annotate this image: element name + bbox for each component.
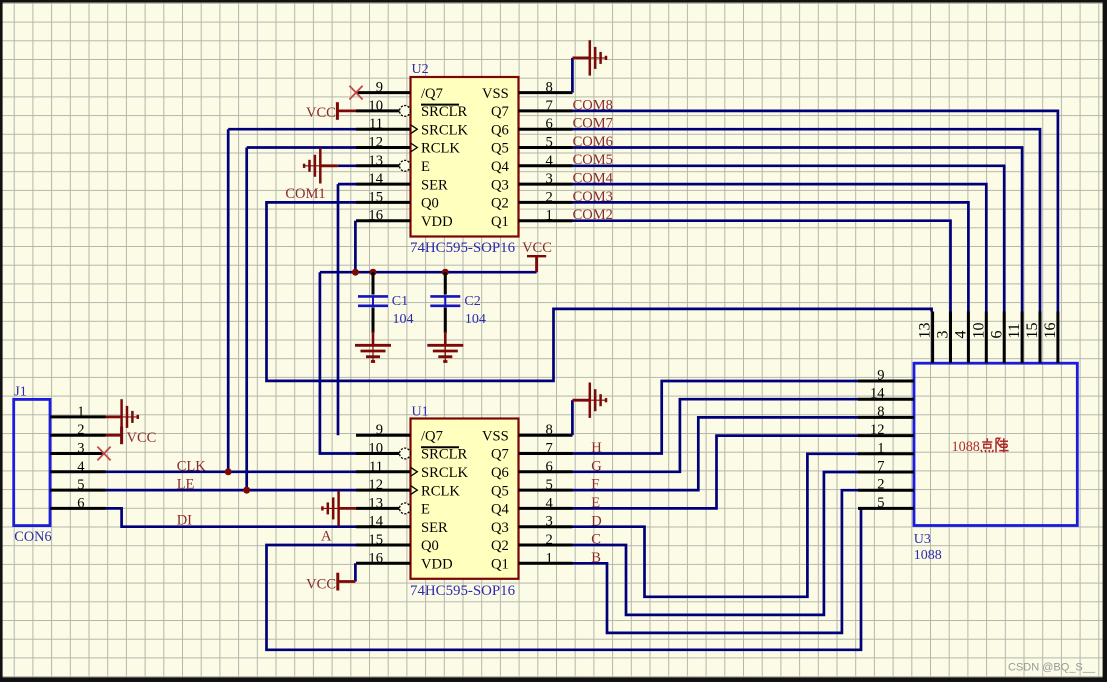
svg-text:SRCLK: SRCLK xyxy=(421,465,468,481)
value label 74HC595-SOP16 of U2 xyxy=(410,240,515,256)
svg-text:LE: LE xyxy=(177,477,195,493)
svg-text:8: 8 xyxy=(546,422,553,438)
net label COM7 xyxy=(573,116,613,132)
label 1088dotmatrix xyxy=(952,438,1009,455)
svg-text:3: 3 xyxy=(546,171,553,187)
pin 8 of U3 (left) xyxy=(858,404,914,420)
svg-text:COM4: COM4 xyxy=(573,171,614,187)
IC U1 74HC595-SOP16 body xyxy=(411,419,519,579)
wire net COM4 from U2 Q3 to matrix xyxy=(573,184,987,311)
pin 2 of U3 (left) xyxy=(858,477,914,493)
pin 16 VDD of U2 xyxy=(356,208,453,230)
wire net COM3 from U2 Q2 to matrix xyxy=(573,202,969,311)
svg-text:Q5: Q5 xyxy=(491,141,509,157)
svg-text:104: 104 xyxy=(465,312,486,327)
value label 1088 xyxy=(914,548,942,563)
wire vertical LE riser xyxy=(245,148,248,491)
net label COM6 xyxy=(573,134,613,150)
pin 10 SRCLR of U2 xyxy=(356,98,467,120)
svg-text:Q2: Q2 xyxy=(491,196,509,212)
svg-text:4: 4 xyxy=(546,495,554,511)
svg-text:Q4: Q4 xyxy=(491,502,510,518)
net label COM8 xyxy=(573,97,613,113)
pin 12 of U3 (left) xyxy=(858,422,914,438)
no-ERC cross on J1 pin 3 xyxy=(97,447,110,461)
svg-text:1: 1 xyxy=(546,208,553,224)
designator C1 xyxy=(392,294,408,309)
wire net COM7 from U2 Q6 to matrix xyxy=(573,129,1041,311)
svg-text:VSS: VSS xyxy=(482,86,509,102)
junction LE xyxy=(243,487,250,494)
svg-text:5: 5 xyxy=(546,477,553,493)
svg-text:10: 10 xyxy=(368,441,383,457)
svg-text:14: 14 xyxy=(870,386,885,402)
svg-text:Q5: Q5 xyxy=(491,483,509,499)
pin 1 of J1 xyxy=(50,404,106,420)
net label C xyxy=(591,532,601,548)
svg-text:11: 11 xyxy=(369,116,383,132)
svg-text:RCLK: RCLK xyxy=(421,483,460,499)
connector J1 CON6 body xyxy=(14,399,50,525)
svg-text:C2: C2 xyxy=(464,294,480,309)
pin 7 of U3 (left) xyxy=(858,459,914,475)
svg-text:VDD: VDD xyxy=(421,557,453,573)
svg-text:2: 2 xyxy=(546,532,553,548)
svg-text:13: 13 xyxy=(368,495,383,511)
svg-text:Q7: Q7 xyxy=(491,447,509,463)
designator U2 xyxy=(412,62,429,77)
pin 4 Q4 of U2 xyxy=(491,153,573,175)
svg-text:7: 7 xyxy=(877,459,884,475)
wire net COM6 from U2 Q5 to matrix xyxy=(573,148,1023,312)
wire net D from U1 Q3 to matrix pin 1 xyxy=(573,454,859,597)
svg-text:6: 6 xyxy=(546,459,553,475)
svg-text:COM7: COM7 xyxy=(573,116,613,132)
svg-text:Q1: Q1 xyxy=(491,557,509,573)
wire net COM8 from U2 Q7 to matrix xyxy=(573,111,1058,312)
no-ERC cross on U2 pin 9 xyxy=(349,86,362,100)
pin 2 Q2 of U2 xyxy=(491,189,573,211)
svg-text:5: 5 xyxy=(77,477,84,493)
pin 1 of U3 (left) xyxy=(858,440,914,456)
svg-text:CSDN @BQ_S__: CSDN @BQ_S__ xyxy=(1008,662,1096,674)
capacitor C1 xyxy=(358,272,388,333)
pin 5 Q5 of U1 xyxy=(491,477,573,499)
pin 13 E of U1 xyxy=(356,495,430,517)
svg-text:Q3: Q3 xyxy=(491,177,509,193)
svg-text:8: 8 xyxy=(546,80,553,96)
svg-text:11: 11 xyxy=(369,459,383,475)
svg-text:/Q7: /Q7 xyxy=(421,86,443,102)
value 104 of C1 xyxy=(393,312,414,327)
svg-text:Q7: Q7 xyxy=(491,104,509,120)
svg-text:U3: U3 xyxy=(914,532,931,547)
net label B xyxy=(591,550,601,566)
capacitor C2 xyxy=(430,272,460,333)
pin 11 of U3 (top) xyxy=(1006,312,1023,364)
ground symbol below C2 xyxy=(427,332,463,362)
svg-text:U2: U2 xyxy=(412,62,429,77)
svg-text:3: 3 xyxy=(77,441,84,457)
pin 14 SER of U1 xyxy=(356,514,448,536)
svg-text:74HC595-SOP16: 74HC595-SOP16 xyxy=(410,583,515,599)
pin 13 of U3 (top) xyxy=(917,312,934,364)
svg-text:U1: U1 xyxy=(412,404,429,419)
ground symbol below C1 xyxy=(355,332,391,362)
net label D xyxy=(591,513,601,529)
pin 5 Q5 of U2 xyxy=(491,135,573,157)
pin 3 of U3 (top) xyxy=(935,312,952,364)
wire net LE from J1 pin 5 to U1 RCLK xyxy=(106,489,357,492)
svg-text:COM2: COM2 xyxy=(573,207,613,223)
pin 10 of U3 (top) xyxy=(970,312,987,364)
pin 4 Q4 of U1 xyxy=(491,495,573,517)
svg-text:15: 15 xyxy=(368,532,383,548)
wire VCC rail down to U1 SRCLR xyxy=(320,272,356,453)
svg-text:VSS: VSS xyxy=(482,428,509,444)
net label H xyxy=(591,440,602,456)
pin 9 /Q7 of U2 xyxy=(356,80,443,102)
svg-text:5: 5 xyxy=(546,135,553,151)
svg-text:2: 2 xyxy=(77,422,84,438)
pin 1 Q1 of U2 xyxy=(491,208,573,230)
svg-text:VCC: VCC xyxy=(306,577,336,593)
pin 16 of U3 (top) xyxy=(1042,312,1059,364)
svg-text:104: 104 xyxy=(393,312,414,327)
svg-text:1: 1 xyxy=(546,550,553,566)
svg-text:14: 14 xyxy=(368,514,383,530)
power port VCC at J1 pin 2 xyxy=(106,426,157,446)
pin 2 Q2 of U1 xyxy=(491,532,573,554)
pin 12 RCLK of U2 xyxy=(356,135,460,157)
wire net COM1 from U2 Q0 xyxy=(267,202,932,381)
designator U1 xyxy=(412,404,429,419)
ground symbol at J1 pin 1 xyxy=(106,399,139,434)
svg-text:COM5: COM5 xyxy=(573,152,613,168)
svg-text:COM1: COM1 xyxy=(285,186,325,202)
designator J1 xyxy=(14,385,26,400)
svg-text:/Q7: /Q7 xyxy=(421,428,443,444)
svg-text:12: 12 xyxy=(368,135,383,151)
svg-text:VDD: VDD xyxy=(421,214,453,230)
svg-text:6: 6 xyxy=(988,331,1005,339)
svg-text:VCC: VCC xyxy=(306,105,336,121)
svg-text:10: 10 xyxy=(970,323,987,339)
wire U2 RCLK to LE vertical xyxy=(247,146,356,149)
pin 13 E of U2 xyxy=(356,153,430,175)
svg-text:Q2: Q2 xyxy=(491,538,509,554)
wire vertical CLK riser xyxy=(227,129,230,472)
pin 6 Q6 of U1 xyxy=(491,459,573,481)
svg-text:Q0: Q0 xyxy=(421,538,439,554)
junction CLK xyxy=(225,468,232,475)
svg-text:14: 14 xyxy=(368,171,383,187)
value label CON6 xyxy=(14,529,51,545)
IC U2 74HC595-SOP16 body xyxy=(411,77,519,237)
junction C1 / rail xyxy=(370,269,377,276)
wire U2 SER from U1 /Q7 cascade xyxy=(338,183,356,186)
svg-text:12: 12 xyxy=(368,477,383,493)
pin 3 Q3 of U1 xyxy=(491,514,573,536)
wire U1 VSS to ground xyxy=(571,400,574,435)
pin 8 VSS of U2 xyxy=(482,80,572,102)
svg-text:E: E xyxy=(421,159,430,175)
wire net B from U1 Q1 to matrix pin 2 xyxy=(573,490,859,633)
svg-text:15: 15 xyxy=(368,189,383,205)
net label A xyxy=(321,529,332,545)
value label 74HC595-SOP16 of U1 xyxy=(410,583,515,599)
svg-text:COM8: COM8 xyxy=(573,97,613,113)
svg-text:1: 1 xyxy=(77,404,84,420)
svg-text:2: 2 xyxy=(877,477,884,493)
ground symbol at U2 pin 8 VSS xyxy=(572,40,606,75)
pin 10 SRCLR of U1 xyxy=(356,441,467,463)
svg-text:SRCLK: SRCLK xyxy=(421,122,468,138)
svg-text:9: 9 xyxy=(877,368,884,384)
wire net A from U1 Q0 to matrix pin 5 xyxy=(267,508,862,649)
pin 3 of J1 xyxy=(50,441,106,457)
wire net F from U1 Q5 to matrix pin 8 xyxy=(573,417,859,490)
svg-text:C1: C1 xyxy=(392,294,408,309)
pin 6 of J1 xyxy=(50,495,106,511)
wire net COM5 from U2 Q4 to matrix xyxy=(573,166,1005,312)
svg-text:COM3: COM3 xyxy=(573,189,613,205)
svg-text:74HC595-SOP16: 74HC595-SOP16 xyxy=(410,240,515,256)
svg-text:8: 8 xyxy=(877,404,884,420)
pin 11 SRCLK of U1 xyxy=(356,459,468,481)
svg-text:13: 13 xyxy=(917,323,934,339)
svg-text:Q6: Q6 xyxy=(491,465,509,481)
pin 6 Q6 of U2 xyxy=(491,116,573,138)
svg-text:SER: SER xyxy=(421,177,448,193)
net label COM4 xyxy=(573,171,614,187)
svg-text:E: E xyxy=(421,502,430,518)
svg-text:3: 3 xyxy=(546,514,553,530)
pin 9 /Q7 of U1 xyxy=(356,422,443,444)
svg-text:6: 6 xyxy=(546,116,553,132)
pin 5 of J1 xyxy=(50,477,106,493)
net label COM2 xyxy=(573,207,613,223)
pin 4 of J1 xyxy=(50,459,106,475)
ground symbol at U2 pin 13 E xyxy=(304,148,356,183)
pin 15 of U3 (top) xyxy=(1024,312,1041,364)
pin 12 RCLK of U1 xyxy=(356,477,460,499)
svg-text:1088: 1088 xyxy=(952,439,980,455)
svg-text:SRCLR: SRCLR xyxy=(421,447,467,463)
net label LE xyxy=(177,477,195,493)
svg-text:16: 16 xyxy=(368,208,383,224)
pin 15 Q0 of U2 xyxy=(356,189,439,211)
svg-text:COM6: COM6 xyxy=(573,134,613,150)
svg-text:CON6: CON6 xyxy=(14,529,51,545)
pin 2 of J1 xyxy=(50,422,106,438)
pin 14 SER of U2 xyxy=(356,171,448,193)
net label DI xyxy=(177,512,192,528)
wire U2 SRCLK to CLK vertical xyxy=(228,128,356,131)
wire U2 VSS to ground xyxy=(571,58,574,93)
wire VCC rail above capacitors xyxy=(320,271,537,274)
svg-text:9: 9 xyxy=(376,422,383,438)
svg-text:7: 7 xyxy=(546,441,553,457)
wire net DI from J1 pin 6 to U1 SER xyxy=(106,508,357,526)
pin 14 of U3 (left) xyxy=(858,386,914,402)
designator C2 xyxy=(464,294,480,309)
svg-text:16: 16 xyxy=(1042,323,1059,339)
pin 1 Q1 of U1 xyxy=(491,550,573,572)
svg-text:2: 2 xyxy=(546,189,553,205)
svg-text:DI: DI xyxy=(177,512,192,528)
svg-text:J1: J1 xyxy=(14,385,26,400)
pin 11 SRCLK of U2 xyxy=(356,116,468,138)
pin 16 VDD of U1 xyxy=(356,550,453,572)
net label COM3 xyxy=(573,189,613,205)
svg-text:7: 7 xyxy=(546,98,553,114)
pin 8 VSS of U1 xyxy=(482,422,572,444)
svg-text:Q0: Q0 xyxy=(421,196,439,212)
svg-text:Q4: Q4 xyxy=(491,159,510,175)
svg-text:13: 13 xyxy=(368,153,383,169)
junction U2 VDD / rail xyxy=(352,269,359,276)
junction C2 / rail xyxy=(442,269,449,276)
net label CLK xyxy=(177,458,207,474)
svg-text:3: 3 xyxy=(935,331,952,339)
svg-text:12: 12 xyxy=(870,422,885,438)
svg-text:SRCLR: SRCLR xyxy=(421,104,467,120)
svg-text:9: 9 xyxy=(376,80,383,96)
svg-text:4: 4 xyxy=(546,153,554,169)
svg-text:16: 16 xyxy=(368,550,383,566)
svg-text:15: 15 xyxy=(1024,323,1041,339)
svg-text:4: 4 xyxy=(77,459,85,475)
svg-text:Q6: Q6 xyxy=(491,122,509,138)
designator U3 xyxy=(914,532,931,547)
ground symbol at U1 pin 13 E xyxy=(322,491,356,526)
svg-text:CLK: CLK xyxy=(177,458,207,474)
svg-text:6: 6 xyxy=(77,495,84,511)
pin 7 Q7 of U2 xyxy=(491,98,573,120)
value 104 of C2 xyxy=(465,312,486,327)
svg-text:RCLK: RCLK xyxy=(421,141,460,157)
svg-text:10: 10 xyxy=(368,98,383,114)
pin 15 Q0 of U1 xyxy=(356,532,439,554)
net label E xyxy=(591,495,600,511)
dot matrix U3 1088 body xyxy=(914,363,1077,525)
wire cascade vertical U1 /Q7 to U2 SER xyxy=(337,184,340,435)
svg-text:11: 11 xyxy=(1006,323,1023,338)
svg-text:Q1: Q1 xyxy=(491,214,509,230)
pin 3 Q3 of U2 xyxy=(491,171,573,193)
net label COM1 xyxy=(285,186,325,202)
pin 9 of U3 (left) xyxy=(858,368,914,384)
wire net G from U1 Q6 to matrix pin 14 xyxy=(573,399,859,472)
svg-text:5: 5 xyxy=(877,495,884,511)
net label F xyxy=(591,477,599,493)
ground symbol at U1 pin 8 VSS xyxy=(572,383,606,418)
svg-text:A: A xyxy=(321,529,332,545)
svg-text:VCC: VCC xyxy=(522,240,552,256)
power port VCC at U1 pin 16 VDD xyxy=(306,563,355,592)
wire net C from U1 Q2 to matrix pin 7 xyxy=(573,472,859,615)
svg-text:1088: 1088 xyxy=(914,548,942,563)
svg-text:SER: SER xyxy=(421,520,448,536)
svg-text:VCC: VCC xyxy=(127,430,157,446)
wire net CLK from J1 pin 4 to U1 SRCLK xyxy=(106,470,357,473)
pin 7 Q7 of U1 xyxy=(491,441,573,463)
svg-text:1: 1 xyxy=(877,440,884,456)
wire net H from U1 Q7 to matrix pin 9 xyxy=(573,381,859,454)
net label COM5 xyxy=(573,152,613,168)
pin 4 of U3 (top) xyxy=(953,312,970,364)
svg-text:Q3: Q3 xyxy=(491,520,509,536)
svg-text:4: 4 xyxy=(953,331,970,339)
wire U2 VDD down to VCC rail xyxy=(354,221,357,273)
power port VCC on rail xyxy=(522,240,552,272)
net label G xyxy=(591,458,602,474)
power port VCC at U2 pin 10 xyxy=(306,102,356,121)
wire net COM2 from U2 Q1 to matrix xyxy=(573,221,951,312)
pin 6 of U3 (top) xyxy=(988,312,1005,364)
wire net E from U1 Q4 to matrix pin 12 xyxy=(573,436,859,509)
pin 5 of U3 (left) xyxy=(858,495,914,511)
